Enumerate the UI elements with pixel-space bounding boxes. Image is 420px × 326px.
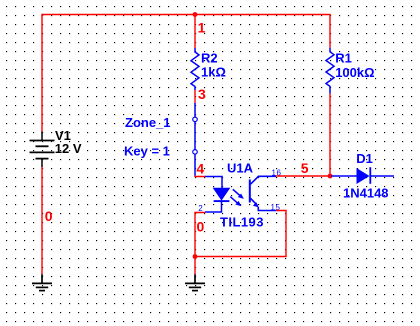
U1A phototransistor [250,176,276,210]
wire: top horizontal from V1+ to R1 [42,15,330,132]
U1A light arrow 2 [230,197,241,207]
U1A LED (triangle + cathode bar) [214,188,230,201]
wire: net 3 segment R2 to switch [194,90,196,103]
svg-text:2: 2 [198,204,203,213]
wire: bottom return pin 15 to ground net [195,211,286,257]
svg-text:TIL193: TIL193 [220,215,264,230]
svg-text:0: 0 [45,208,53,224]
diode D1 [331,167,394,184]
svg-text:3: 3 [198,86,206,102]
svg-text:100kΩ: 100kΩ [335,65,374,80]
svg-text:R1: R1 [335,51,352,66]
wire: junction to mid ground [194,257,196,275]
svg-text:Zone_1: Zone_1 [125,115,171,130]
svg-text:R2: R2 [201,51,218,66]
U1A light arrow 1 [233,189,244,199]
wire: elbow node 4 to U1A pin 1 [195,176,205,177]
svg-text:D1: D1 [356,151,373,166]
U1A LED cathode lead to pin 2 stub [205,202,222,212]
resistor R1 [326,48,334,94]
junction node 1 [193,12,198,17]
wire: V1- down to left ground [41,167,43,274]
wire: U1A pin 2 to ground net [195,213,205,257]
junction on ground net [193,254,198,259]
svg-text:12 V: 12 V [55,141,82,156]
svg-text:Key = 1: Key = 1 [124,144,170,159]
battery V1 [30,132,55,168]
switch S1 Zone_1 (closed) [193,103,198,176]
svg-text:5: 5 [301,160,309,176]
junction node 5 [328,174,333,179]
wire: node 1 down to R2 [194,15,196,49]
svg-text:0: 0 [197,219,205,235]
resistor R2 [191,48,199,90]
ground (mid) [185,274,205,290]
wire: net 5 from U1A pin 16 to D1 [276,175,330,177]
svg-text:1kΩ: 1kΩ [201,65,226,80]
wire: R1 bottom to node 5 [329,94,331,176]
svg-text:4: 4 [196,161,204,177]
U1A pin 1 stub and LED anode lead [205,177,222,189]
svg-text:1: 1 [198,19,206,35]
svg-text:U1A: U1A [227,161,254,176]
ground (left) [32,274,52,290]
svg-text:1N4148: 1N4148 [343,186,389,201]
